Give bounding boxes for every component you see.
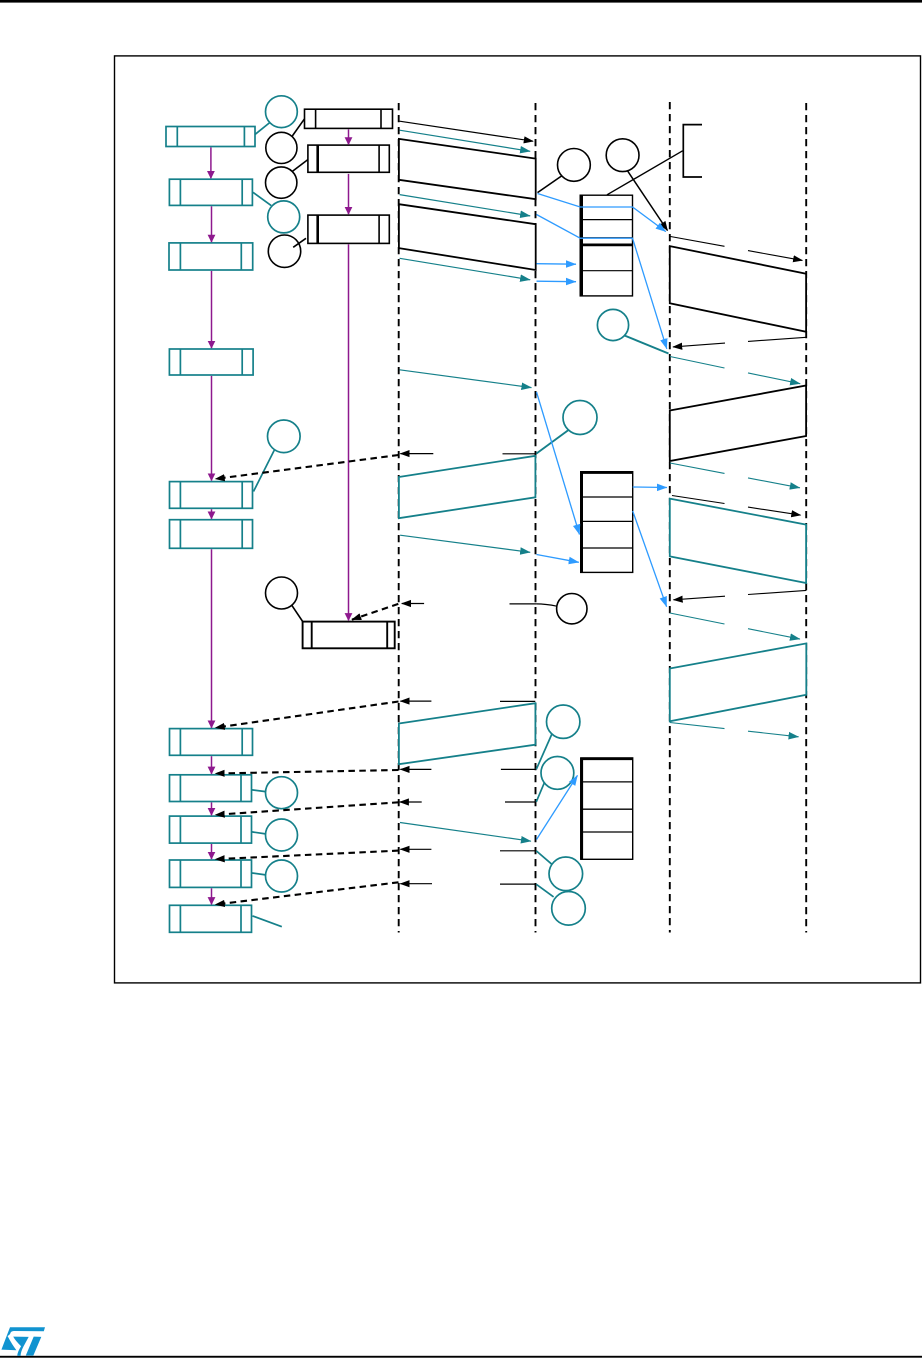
purple flow arrow 10 [211,888,213,904]
figure frame [115,56,921,983]
leader T5 to teal box 5 [254,450,275,492]
return label row y701 [400,700,535,702]
leader TG to label line y884 [536,884,553,897]
purple flow arrow 6 [211,549,213,728]
circle T7 (teal) [563,401,597,435]
right thin teal arrow R7 [670,613,800,639]
circle C9 (black) [557,594,587,624]
thin teal message arrow A2 [400,195,531,216]
leader T6 to lifeline3 [625,336,669,354]
table 3 [581,758,633,859]
circle TD (teal) [547,705,580,738]
leader C5 to black box 3 [293,238,306,247]
thin teal message arrow A4 [400,370,532,388]
leader C3 to black box 2 [293,160,309,172]
blue link B2 [537,215,667,349]
circle C8 (black) [606,139,639,172]
purple flow arrow 4 [211,376,213,481]
purple flow arrow 9 [211,844,213,859]
leader TC to teal box 10 [252,873,266,875]
teal box 11 [170,905,252,932]
circle T5 (teal) [268,420,301,453]
purple flow arrow 11 (column 2) [348,129,350,144]
leader TA to teal box 8 [252,790,266,792]
leader TB to teal box 9 [252,832,266,834]
circle TC (teal) [266,860,298,892]
message band T1 (teal, lifeline1-2) [399,456,536,518]
leader C6 to black box 4 [292,605,303,622]
circle TB (teal) [266,819,298,851]
leader TF to label line y850 [536,851,552,864]
circle TA (teal) [266,777,298,809]
purple flow arrow 5 [211,509,213,519]
teal box 3 [169,243,253,270]
circle C2 (black) [266,132,297,163]
purple flow arrow 12 (column 2) [348,174,350,214]
lifeline 2 [535,103,537,933]
return label row y849 [400,849,535,851]
page bottom rule [0,1356,922,1358]
thin teal message arrow A5 [400,535,530,552]
purple flow arrow 3 [211,271,213,348]
leader C2 to black box 1 [292,119,304,136]
leader T1 to teal box 1 [255,123,270,135]
dashed return arrow into black box 4 [352,604,398,620]
thin teal message arrow A6 [400,823,531,842]
thin teal message arrow A3 [400,258,531,280]
dashed return arrow into teal box 11 [216,882,399,904]
circle C7 (black) [558,149,591,182]
right thin teal arrow R3 [670,357,800,384]
thin black message arrow A0 [400,121,533,141]
leader T7 to lifeline2 [536,430,568,454]
blue link B6 [537,392,580,535]
purple flow arrow 8 [211,802,213,815]
teal box 7 [170,729,253,756]
circle C3 (black) [266,167,297,198]
message band T2 (teal, lifeline1-2) [399,703,536,764]
black box 3 (column 2) [308,215,389,243]
circle T6 (teal) [597,309,628,340]
dashed return arrow into teal box 5 [216,455,399,479]
circle TG (teal) [552,892,586,926]
blue link B8 [633,511,667,607]
leader TE to label line y802 [536,783,544,802]
teal box 9 [170,816,252,843]
message band K2 (black, lifeline1-2) [399,204,536,270]
message band R4 (teal, lifeline3-4) [670,643,807,721]
dashed return arrow into teal box 9 [216,802,399,815]
black box 4 (column 2, lower) [303,622,395,649]
purple flow arrow 13 (column 2, long) [348,244,350,620]
lifeline 3 [669,102,671,933]
return label row y769 [400,768,535,770]
dashed return arrow into teal box 7 [216,702,399,728]
purple flow arrow 2 [211,206,213,242]
dashed return arrow into teal box 8 [216,770,399,774]
circle T1 (teal) [266,96,298,128]
circle C6 (black) [266,577,298,609]
black box 1 (column 2) [305,109,393,128]
tail line from teal box 11 [253,916,282,927]
message band R3 (teal, lifeline3-4) [670,499,806,583]
page top bar [0,0,922,3]
lifeline 1 [398,103,400,933]
leader line bracket to table 1 [607,151,683,195]
right thin black arrow R2 (left) [673,337,806,347]
return label row y603 [402,603,536,605]
teal box 1 [166,127,255,147]
black box 2 (column 2) [308,145,389,172]
blue link B3 [537,263,577,266]
return label row y884 [400,883,535,885]
circle C5 (black) [268,235,300,267]
circle TE (teal) [541,757,574,790]
blue link B9 [537,775,578,839]
blue link B7 [537,555,579,563]
return label row y802 [400,801,536,803]
teal box 6 [170,520,253,549]
teal box 2 [169,179,252,205]
leader C9 to label line [536,604,557,606]
right thin teal arrow R8 [670,723,799,737]
teal box 8 [170,775,252,802]
right thin teal arrow R4 [670,463,800,488]
blue link B4 [537,280,577,283]
return label row y453: arrowhead at lifeline1 [400,453,535,455]
message band R2 (black, lifeline3-4) [670,386,806,462]
table 2 [581,472,633,573]
circle TF (teal) [549,857,583,891]
message band R1 (black, lifeline3-4) [670,246,806,332]
right thin black arrow R1 [671,237,803,261]
blue link B5 [633,486,667,489]
message band K1 (black, lifeline1-2) [399,139,536,199]
leader TD to label line y770 [536,734,552,769]
teal box 4 [169,349,253,375]
purple flow arrow 7 [211,756,213,774]
leader T4 to teal box 2 [253,192,271,205]
annotation bracket (top right) [683,125,702,177]
right thin black arrow R6 (left) [674,590,807,599]
teal box 10 [170,860,252,887]
thin teal message arrow A1 [400,130,531,151]
circle T4 (teal) [268,201,300,233]
teal box 5 [170,482,253,509]
blue link B1 [538,194,666,232]
table 1 [580,195,632,296]
lifeline 4 [805,103,807,933]
ST logo [1,1327,45,1356]
dashed return arrow into teal box 10 [216,851,399,860]
leader C7 to lifeline2 [538,176,562,193]
leader C8 to lifeline3 (arrow) [628,171,668,231]
purple flow arrow 1 [210,147,212,178]
right thin black arrow R5 [672,496,801,516]
